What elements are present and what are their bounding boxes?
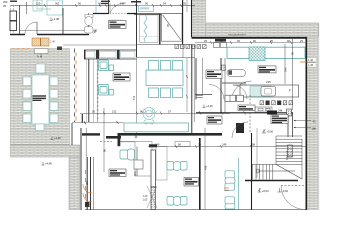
svg-text:120: 120 bbox=[36, 2, 41, 6]
svg-text:196: 196 bbox=[120, 2, 125, 6]
svg-text:248: 248 bbox=[278, 110, 283, 113]
svg-text:1,48: 1,48 bbox=[50, 41, 55, 44]
svg-text:235: 235 bbox=[266, 80, 271, 84]
svg-text:346: 346 bbox=[284, 67, 288, 72]
svg-text:-0,02: -0,02 bbox=[282, 189, 288, 193]
svg-text:1,40: 1,40 bbox=[308, 58, 314, 62]
svg-text:+4,46: +4,46 bbox=[206, 104, 213, 108]
svg-text:Tr: Tr bbox=[37, 55, 39, 59]
svg-text:18x17,5: 18x17,5 bbox=[285, 150, 289, 160]
svg-text:1,05: 1,05 bbox=[143, 199, 148, 202]
svg-text:+0,00: +0,00 bbox=[267, 130, 274, 134]
svg-text:90: 90 bbox=[291, 51, 295, 55]
svg-text:186: 186 bbox=[312, 126, 317, 130]
svg-text:152: 152 bbox=[112, 109, 117, 113]
svg-text:249: 249 bbox=[155, 142, 160, 146]
svg-text:F: F bbox=[289, 89, 291, 93]
svg-text:+0,00: +0,00 bbox=[262, 189, 269, 193]
svg-text:weg gepflastert: weg gepflastert bbox=[228, 32, 246, 36]
svg-text:600: 600 bbox=[133, 171, 137, 176]
svg-text:1,46: 1,46 bbox=[308, 63, 314, 67]
svg-text:360: 360 bbox=[3, 0, 8, 4]
svg-text:571: 571 bbox=[132, 95, 136, 100]
svg-text:436: 436 bbox=[204, 165, 208, 170]
svg-text:+4,48: +4,48 bbox=[45, 162, 52, 166]
svg-text:301: 301 bbox=[85, 180, 89, 185]
svg-text:362: 362 bbox=[55, 2, 60, 6]
svg-text:249: 249 bbox=[222, 142, 227, 146]
svg-text:+1,48: +1,48 bbox=[52, 17, 60, 21]
svg-text:+4,48: +4,48 bbox=[54, 136, 61, 140]
